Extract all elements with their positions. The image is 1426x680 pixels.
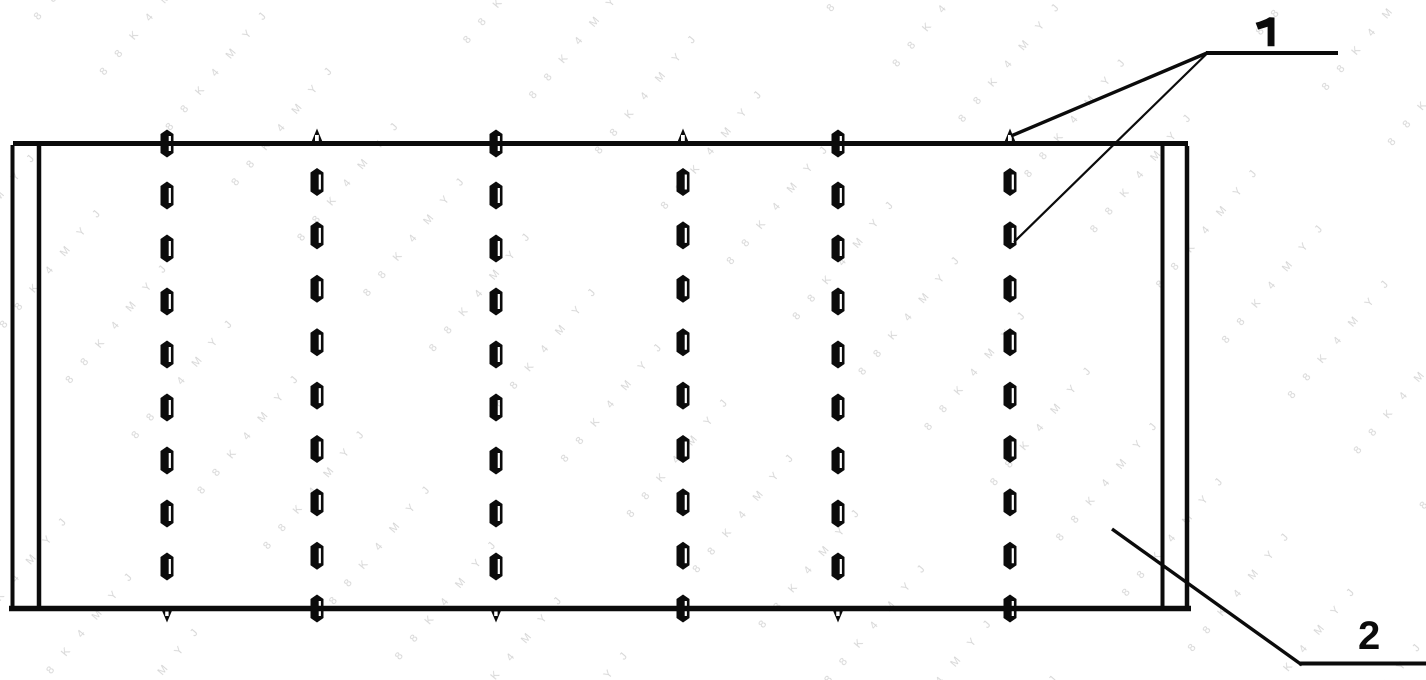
- leader line 1 upper: [1011, 53, 1207, 136]
- svg-text:2: 2: [1358, 614, 1380, 658]
- leader line 2: [1112, 529, 1302, 665]
- left outer line: [11, 145, 15, 611]
- frame top border: [13, 141, 1188, 146]
- perforation column 5: [832, 130, 845, 623]
- leader line 1 lower: [1014, 54, 1207, 243]
- right outer line: [1185, 146, 1190, 611]
- perforation column 4: [677, 129, 690, 623]
- label 2 reference line: [1299, 662, 1426, 666]
- perforation column 2: [311, 129, 324, 623]
- frame bottom border: [9, 606, 1191, 612]
- perforation column 6: [1004, 129, 1017, 623]
- left inner line: [37, 143, 42, 609]
- right inner line: [1161, 143, 1165, 609]
- label 1 reference line: [1206, 51, 1338, 55]
- label 1: [1256, 17, 1275, 46]
- perforation column 1: [161, 130, 174, 623]
- perforation column 3: [490, 130, 503, 623]
